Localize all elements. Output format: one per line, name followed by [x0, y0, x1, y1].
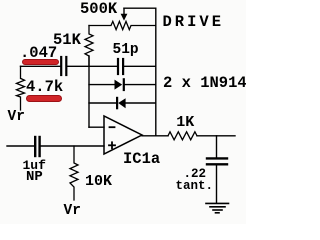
label 51K	[53, 33, 81, 49]
label .047	[20, 46, 57, 62]
ground	[206, 203, 229, 212]
label IC1a	[123, 152, 160, 168]
resistor R4 10K	[70, 146, 78, 200]
label 51p	[113, 43, 139, 58]
wire C2 right lead to rail	[124, 65, 156, 67]
diode D1 1N914 (anode left)	[115, 79, 124, 90]
wire summing node horizontal (y=66) left segment	[21, 65, 61, 67]
red highlight under 4.7k	[26, 95, 63, 102]
label 1uf	[23, 159, 46, 172]
wire non-inverting input (y=146) left segment	[7, 145, 34, 147]
wire output to right edge	[197, 135, 235, 137]
wiper arrow of 500K pot	[121, 8, 128, 20]
wire between C1 and left rail	[67, 65, 116, 67]
resistor R5 1K	[168, 132, 197, 140]
red highlight under .047	[22, 59, 60, 66]
label NP	[26, 170, 43, 184]
resistor R3 4.7k	[17, 66, 25, 110]
wire left vertical rail (inverting node)	[88, 56, 90, 127]
op-amp minus sign	[110, 126, 115, 128]
label Vr upper	[8, 110, 25, 125]
op-amp plus sign	[109, 142, 115, 148]
capacitor C4 .22 tant	[207, 158, 227, 164]
op-amp U1 IC1a triangle	[104, 116, 142, 154]
wire inverting input	[89, 126, 104, 128]
label 4.7k	[26, 80, 63, 96]
label Vr lower	[64, 204, 81, 219]
label 2 x 1N914	[163, 76, 247, 92]
potentiometer R1 500K	[89, 21, 156, 29]
wire top feedback loop from wiper	[124, 7, 156, 9]
wire diode D2 right lead	[126, 102, 156, 104]
wire right vertical rail (DRIVE node)	[155, 8, 157, 136]
label DRIVE	[163, 15, 225, 31]
wire .22 cap branch down	[216, 136, 218, 157]
label 1K	[176, 115, 194, 130]
diode D2 1N914 (cathode left)	[117, 98, 126, 108]
wire diode D1 left lead	[89, 84, 115, 86]
wire C3 to op-amp plus input	[41, 145, 104, 147]
wire diode D2 left lead	[89, 102, 116, 104]
capacitor C2 51p	[118, 59, 123, 74]
label 500K	[80, 2, 117, 18]
wire diode D1 right lead	[125, 84, 156, 86]
label 10K	[85, 174, 112, 189]
resistor R2 51K	[85, 26, 93, 67]
capacitor C3 1uf NP	[35, 137, 39, 156]
wire C4 to ground	[216, 166, 218, 203]
wire op-amp output	[142, 135, 168, 137]
label .22	[184, 168, 207, 181]
label tant.	[176, 180, 214, 193]
capacitor C1 .047	[61, 57, 66, 75]
